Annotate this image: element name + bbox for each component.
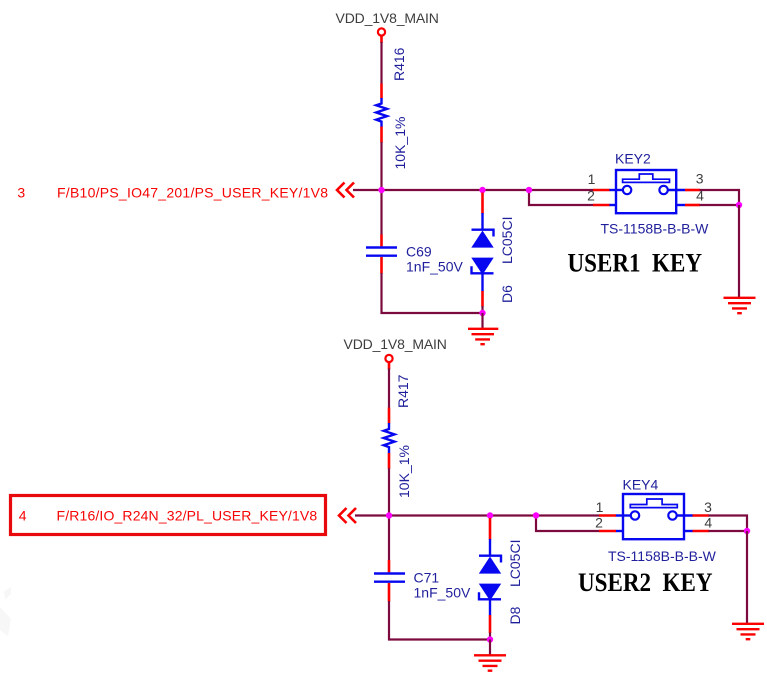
svg-text:USER2 KEY: USER2 KEY — [578, 568, 713, 597]
wire: pin3 to right vertical row2 — [709, 516, 748, 532]
svg-text:LC05CI: LC05CI — [507, 540, 523, 587]
wire: cap bottom to ground corner — [382, 273, 484, 313]
svg-text:2: 2 — [595, 515, 603, 531]
highlight box row2 — [11, 496, 326, 535]
pin 4 KEY2 — [685, 187, 704, 205]
svg-text:1: 1 — [596, 499, 604, 515]
wire: right vertical to ground row2 — [746, 531, 748, 623]
pin 1 KEY2 — [588, 171, 610, 190]
pin 3 KEY2 — [685, 171, 704, 190]
svg-text:C69: C69 — [406, 244, 432, 260]
pin 1 KEY4 — [596, 499, 616, 516]
wire: power to resistor R417 — [388, 369, 390, 409]
wire: power to resistor R416 — [380, 42, 382, 84]
wire: pin3 to right vertical row1 — [700, 190, 740, 205]
svg-text:10K_1%: 10K_1% — [392, 117, 408, 170]
svg-text:R417: R417 — [395, 374, 411, 408]
wire: main net row1 horizontal — [353, 189, 594, 191]
node junction row2 at step — [533, 512, 539, 518]
pin 2 KEY2 — [587, 188, 609, 205]
svg-text:TS-1158B-B-B-W: TS-1158B-B-B-W — [608, 548, 717, 564]
wire: right vertical to ground row1 — [738, 205, 740, 297]
svg-text:D8: D8 — [507, 606, 523, 624]
off-page connector chevron row1 — [337, 183, 354, 198]
node junction at ground corner row1 — [479, 310, 485, 316]
svg-text:R416: R416 — [391, 47, 407, 81]
resistor R416 — [376, 47, 408, 169]
power symbol VDD_1V8_MAIN (top) — [336, 10, 439, 43]
wire: resistor to node row2 — [388, 468, 390, 560]
label USER2 KEY — [578, 568, 713, 597]
net label 3 F/B10/PS_IO47_201/PS_USER_KEY/1V8 — [17, 185, 328, 201]
ground (right of KEY4) — [732, 624, 764, 639]
wire: cap bottom to ground corner row2 — [389, 601, 491, 640]
svg-text:3: 3 — [696, 171, 704, 187]
svg-text:3: 3 — [17, 185, 25, 201]
svg-text:TS-1158B-B-B-W: TS-1158B-B-B-W — [601, 221, 710, 237]
svg-text:F/R16/IO_R24N_32/PL_USER_KEY/1: F/R16/IO_R24N_32/PL_USER_KEY/1V8 — [57, 507, 318, 523]
diode D6 LC05CI (TVS) — [471, 193, 515, 314]
svg-text:3: 3 — [704, 499, 712, 515]
node junction row2 at resistor — [386, 512, 392, 518]
svg-text:4: 4 — [19, 507, 27, 523]
wire: main net row2 horizontal — [355, 514, 600, 516]
node junction right row1 — [736, 202, 742, 208]
diode D8 LC05CI (TVS) — [479, 518, 523, 640]
ground (right of KEY2) — [724, 298, 756, 313]
svg-text:KEY2: KEY2 — [615, 150, 651, 166]
off-page connector chevron row2 — [339, 508, 356, 523]
pin 3 KEY4 — [693, 499, 713, 516]
pin 4 KEY4 — [693, 515, 713, 531]
svg-text:10K_1%: 10K_1% — [396, 445, 412, 498]
node junction row2 at diode — [487, 512, 493, 518]
svg-text:USER1 KEY: USER1 KEY — [568, 249, 703, 278]
svg-text:2: 2 — [587, 188, 595, 204]
power symbol VDD_1V8_MAIN (bottom) — [344, 336, 447, 370]
node junction at ground corner row2 — [487, 636, 493, 642]
svg-text:LC05CI: LC05CI — [499, 217, 515, 264]
svg-text:1: 1 — [588, 171, 596, 187]
wire: pin4 to right junction row2 — [709, 530, 748, 532]
capacitor C69 — [366, 235, 463, 275]
svg-text:C71: C71 — [414, 570, 440, 586]
capacitor C71 — [374, 560, 471, 602]
wire: step down to pin2 row2 — [536, 516, 600, 532]
wire: pin4 to right junction row1 — [700, 204, 740, 206]
node junction row1 at diode — [479, 187, 485, 193]
node junction row1 at resistor — [378, 187, 384, 193]
node junction right row2 — [744, 528, 750, 534]
wire: step down to pin2 row1 — [529, 190, 594, 205]
resistor R417 — [384, 374, 412, 498]
svg-text:D6: D6 — [499, 285, 515, 303]
svg-text:VDD_1V8_MAIN: VDD_1V8_MAIN — [344, 336, 447, 352]
svg-text:F/B10/PS_IO47_201/PS_USER_KEY/: F/B10/PS_IO47_201/PS_USER_KEY/1V8 — [57, 185, 328, 201]
switch KEY4 TS-1158B-B-B-W — [608, 477, 717, 564]
pin 2 KEY4 — [595, 515, 616, 531]
svg-text:KEY4: KEY4 — [623, 477, 659, 493]
watermark — [0, 587, 11, 637]
svg-text:VDD_1V8_MAIN: VDD_1V8_MAIN — [336, 10, 439, 26]
net label 4 F/R16/IO_R24N_32/PL_USER_KEY/1V8 — [19, 507, 318, 523]
label USER1 KEY — [568, 249, 703, 278]
switch KEY2 TS-1158B-B-B-W — [601, 150, 710, 236]
svg-text:1nF_50V: 1nF_50V — [406, 259, 463, 275]
node junction row1 at step — [526, 187, 532, 193]
ground (under D6) — [468, 313, 498, 344]
wire: resistor to node row1 — [380, 142, 382, 236]
svg-text:1nF_50V: 1nF_50V — [414, 585, 471, 601]
svg-text:4: 4 — [704, 515, 712, 531]
ground (under D8) — [474, 640, 506, 671]
